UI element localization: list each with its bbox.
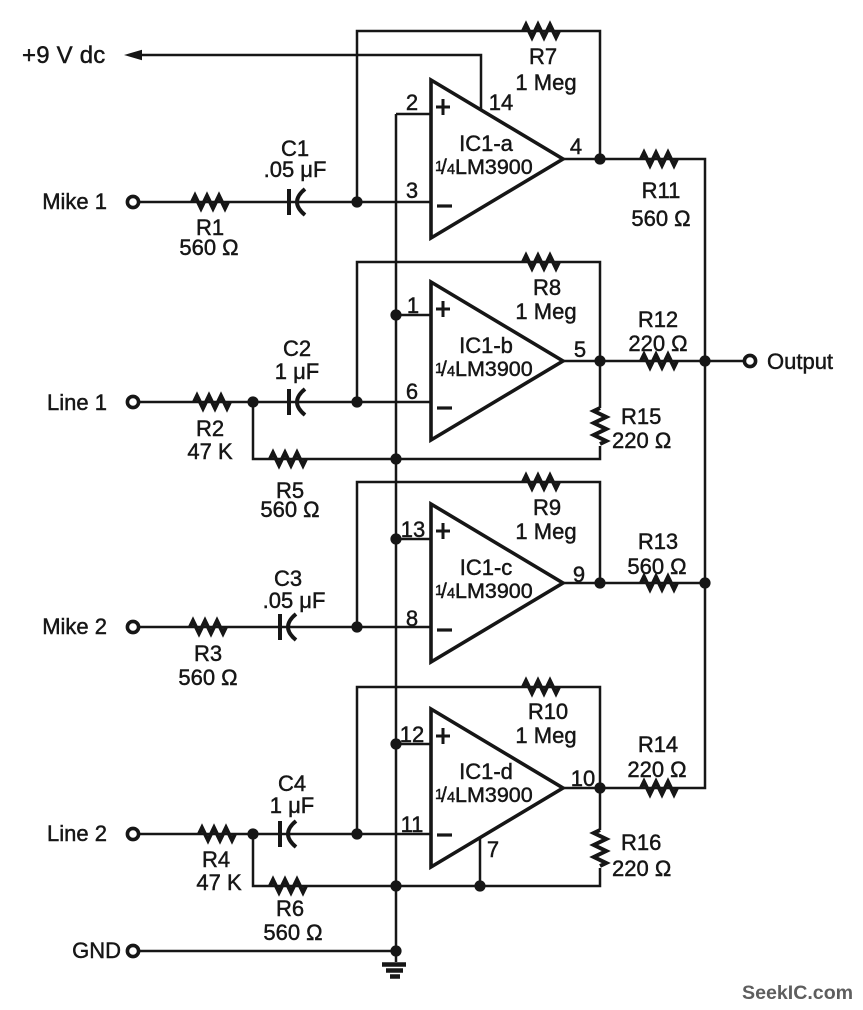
svg-text:47 K: 47 K bbox=[187, 439, 233, 464]
svg-text:5: 5 bbox=[574, 337, 586, 362]
svg-text:1 Meg: 1 Meg bbox=[515, 519, 576, 544]
svg-text:R6: R6 bbox=[276, 896, 304, 921]
svg-text:LM3900: LM3900 bbox=[455, 783, 533, 807]
svg-text:IC1-b: IC1-b bbox=[459, 333, 513, 358]
svg-text:560 Ω: 560 Ω bbox=[178, 665, 237, 690]
svg-text:4: 4 bbox=[570, 134, 582, 159]
svg-text:Mike 2: Mike 2 bbox=[42, 614, 107, 639]
svg-text:IC1-d: IC1-d bbox=[459, 759, 513, 784]
svg-text:1 μF: 1 μF bbox=[270, 793, 314, 818]
svg-text:7: 7 bbox=[487, 837, 499, 862]
svg-text:220 Ω: 220 Ω bbox=[612, 428, 671, 453]
svg-text:R11: R11 bbox=[642, 178, 681, 203]
svg-text:9: 9 bbox=[573, 562, 585, 587]
svg-text:R15: R15 bbox=[621, 404, 661, 429]
svg-text:R14: R14 bbox=[638, 732, 678, 757]
svg-text:R2: R2 bbox=[196, 416, 224, 441]
svg-text:Line 2: Line 2 bbox=[47, 821, 107, 846]
svg-text:Output: Output bbox=[767, 349, 833, 374]
svg-text:1: 1 bbox=[407, 293, 419, 318]
svg-text:IC1-c: IC1-c bbox=[460, 555, 513, 580]
svg-text:.05 μF: .05 μF bbox=[264, 157, 327, 182]
svg-text:LM3900: LM3900 bbox=[455, 357, 533, 381]
svg-text:LM3900: LM3900 bbox=[455, 579, 533, 603]
svg-text:8: 8 bbox=[406, 606, 418, 631]
svg-text:.05 μF: .05 μF bbox=[263, 588, 326, 613]
svg-text:1 Meg: 1 Meg bbox=[515, 723, 576, 748]
svg-text:13: 13 bbox=[401, 517, 425, 542]
svg-text:4: 4 bbox=[447, 162, 455, 178]
svg-text:220 Ω: 220 Ω bbox=[627, 757, 686, 782]
svg-text:R7: R7 bbox=[529, 44, 557, 69]
svg-text:Mike 1: Mike 1 bbox=[42, 189, 107, 214]
svg-text:47 K: 47 K bbox=[196, 870, 242, 895]
svg-text:560 Ω: 560 Ω bbox=[631, 206, 690, 231]
svg-text:6: 6 bbox=[406, 379, 418, 404]
svg-text:LM3900: LM3900 bbox=[455, 155, 533, 179]
svg-text:560 Ω: 560 Ω bbox=[260, 497, 319, 522]
svg-text:1 Meg: 1 Meg bbox=[515, 299, 576, 324]
svg-text:SeekIC.com: SeekIC.com bbox=[742, 982, 853, 1004]
svg-text:C2: C2 bbox=[283, 336, 311, 361]
svg-text:Line 1: Line 1 bbox=[47, 390, 107, 415]
svg-text:R3: R3 bbox=[194, 641, 222, 666]
svg-text:3: 3 bbox=[406, 178, 418, 203]
svg-text:560 Ω: 560 Ω bbox=[627, 554, 686, 579]
svg-text:R8: R8 bbox=[533, 275, 561, 300]
svg-text:1 μF: 1 μF bbox=[275, 359, 319, 384]
svg-text:R12: R12 bbox=[638, 307, 678, 332]
svg-text:R13: R13 bbox=[638, 529, 678, 554]
svg-text:1 Meg: 1 Meg bbox=[515, 70, 576, 95]
svg-text:12: 12 bbox=[400, 722, 424, 747]
svg-text:GND: GND bbox=[72, 938, 121, 963]
svg-text:10: 10 bbox=[571, 766, 595, 791]
svg-text:11: 11 bbox=[401, 812, 424, 837]
svg-text:220 Ω: 220 Ω bbox=[612, 856, 671, 881]
svg-text:4: 4 bbox=[447, 790, 455, 806]
svg-text:14: 14 bbox=[489, 90, 513, 115]
svg-text:560 Ω: 560 Ω bbox=[179, 235, 238, 260]
svg-text:4: 4 bbox=[447, 364, 455, 380]
svg-text:220 Ω: 220 Ω bbox=[628, 331, 687, 356]
svg-text:R9: R9 bbox=[533, 495, 561, 520]
svg-text:R16: R16 bbox=[621, 830, 661, 855]
svg-text:R4: R4 bbox=[202, 847, 230, 872]
svg-text:4: 4 bbox=[447, 586, 455, 602]
svg-text:2: 2 bbox=[406, 90, 418, 115]
svg-text:+9 V dc: +9 V dc bbox=[22, 42, 105, 69]
svg-text:R10: R10 bbox=[528, 699, 568, 724]
svg-text:IC1-a: IC1-a bbox=[459, 131, 514, 156]
svg-text:560 Ω: 560 Ω bbox=[263, 920, 322, 945]
